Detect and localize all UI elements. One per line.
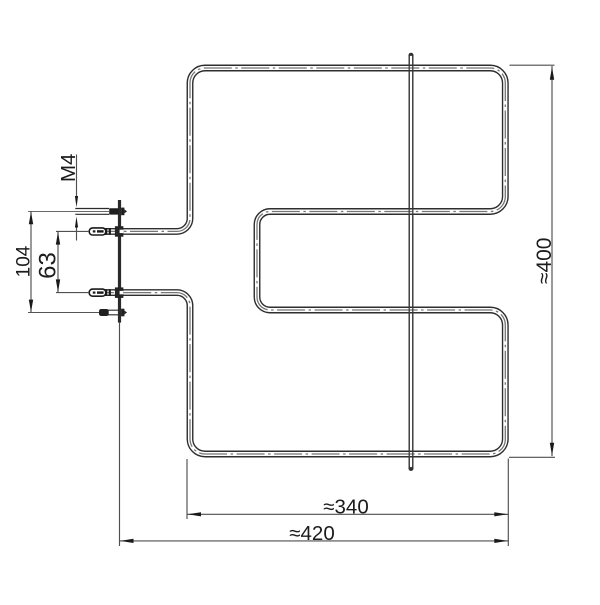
svg-text:≈400: ≈400 (533, 238, 556, 285)
svg-text:63: 63 (34, 252, 61, 279)
svg-text:≈340: ≈340 (323, 496, 368, 519)
svg-text:104: 104 (13, 245, 34, 277)
svg-text:≈420: ≈420 (289, 522, 334, 545)
svg-text:M4: M4 (57, 154, 80, 182)
